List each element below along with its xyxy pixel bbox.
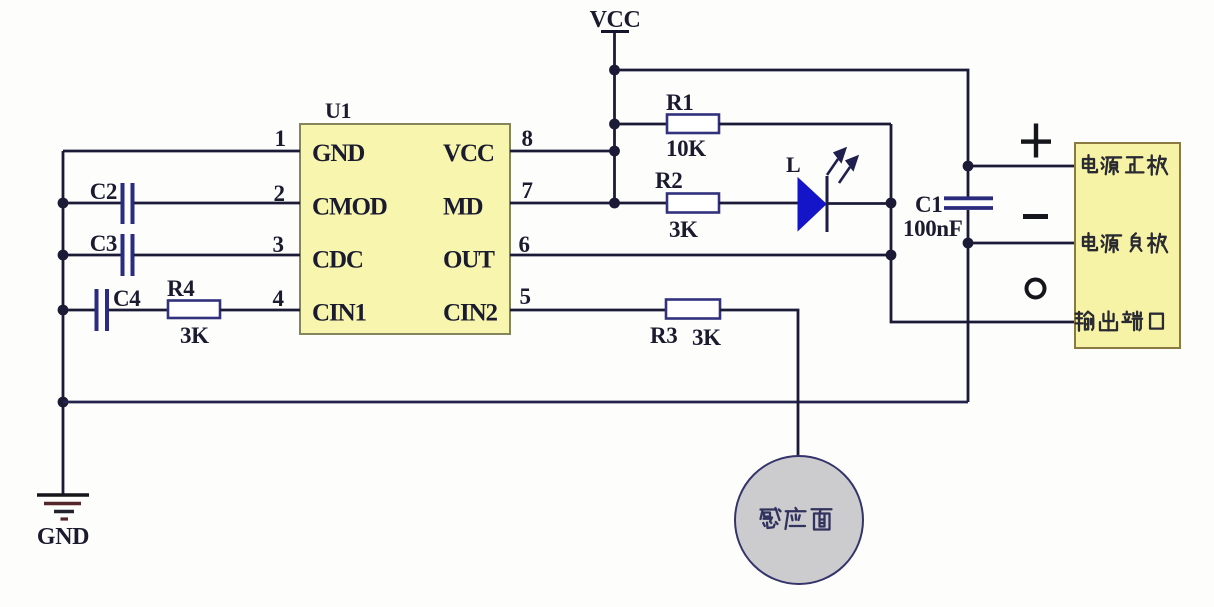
svg-text:8: 8 <box>521 126 532 151</box>
svg-text:5: 5 <box>519 284 530 309</box>
svg-text:3K: 3K <box>692 325 721 350</box>
wire: left bus to C2 <box>63 202 121 205</box>
svg-text:R3: R3 <box>650 323 677 348</box>
node: VCC rail MD row junction <box>609 198 620 209</box>
svg-text:4: 4 <box>272 286 284 311</box>
svg-text:3: 3 <box>272 232 283 257</box>
svg-text:R4: R4 <box>167 276 195 301</box>
wire: pin 5 CIN2 to R3 <box>510 309 666 312</box>
svg-text:OUT: OUT <box>443 247 495 274</box>
wire: C2 to pin 2 <box>134 202 300 205</box>
terminal block <box>1075 143 1180 348</box>
sensing pad (gan ying mian) <box>735 456 863 584</box>
svg-text:CIN1: CIN1 <box>312 300 367 327</box>
svg-text:1: 1 <box>274 126 285 151</box>
svg-text:7: 7 <box>521 178 532 203</box>
node: left bus at ground bus <box>58 397 69 408</box>
svg-text:MD: MD <box>443 194 482 221</box>
node: VCC rail / top rail junction <box>609 65 620 76</box>
svg-text:CMOD: CMOD <box>312 194 387 221</box>
capacitor C3 <box>90 231 133 276</box>
capacitor C2 <box>90 179 133 224</box>
wire: left bus to C4 <box>63 309 95 312</box>
plus symbol <box>1021 124 1051 158</box>
wire: R3 to sensing pad <box>720 310 798 456</box>
svg-text:R2: R2 <box>655 168 682 193</box>
label: power positive terminal (dian yuan zheng ji) <box>1083 155 1167 175</box>
resistor R1 <box>666 90 719 161</box>
node: left bus row 4 <box>58 305 69 316</box>
LED L <box>786 149 857 232</box>
wire: LED cathode to output column <box>828 202 891 205</box>
label: output port (shu chu duan kou) <box>1076 311 1163 330</box>
output O symbol <box>1027 280 1045 298</box>
svg-text:L: L <box>786 152 800 177</box>
minus symbol <box>1023 214 1048 219</box>
power symbol VCC <box>590 7 641 33</box>
svg-text:GND: GND <box>37 524 89 550</box>
svg-text:CDC: CDC <box>312 247 363 274</box>
wire: R1 to output column <box>719 123 891 126</box>
label: power negative terminal (dian yuan fu ji) <box>1083 233 1167 253</box>
node: negative terminal junction <box>963 238 974 249</box>
resistor R2 <box>655 168 719 242</box>
capacitor C4 <box>97 286 142 331</box>
wire: VCC top rail across to right column <box>615 70 969 197</box>
capacitor C1 <box>903 192 993 241</box>
wire: pin 6 OUT row <box>510 254 891 257</box>
wire: negative supply terminal <box>968 242 1075 245</box>
node: VCC rail pin 8 junction <box>609 146 620 157</box>
svg-text:3K: 3K <box>669 217 698 242</box>
svg-text:6: 6 <box>518 232 529 257</box>
ground symbol GND <box>37 495 89 550</box>
svg-text:C4: C4 <box>113 286 141 311</box>
svg-text:VCC: VCC <box>590 7 641 33</box>
IC U1 body <box>300 98 510 334</box>
svg-text:CIN2: CIN2 <box>443 300 498 327</box>
node: left bus row 3 <box>58 250 69 261</box>
svg-text:C3: C3 <box>90 231 117 256</box>
wire: left bus <box>62 151 65 495</box>
svg-text:C2: C2 <box>90 179 117 204</box>
svg-text:3K: 3K <box>180 323 209 348</box>
wire: left bus to C3 <box>63 254 121 257</box>
svg-text:VCC: VCC <box>443 140 494 167</box>
node: positive terminal junction <box>963 161 974 172</box>
wire: pin 7 MD to R2 <box>510 202 667 205</box>
svg-text:10K: 10K <box>666 136 706 161</box>
svg-text:GND: GND <box>312 140 364 167</box>
wire: VCC rail to R1 <box>615 123 668 126</box>
node: left bus row 2 <box>58 198 69 209</box>
resistor R4 <box>167 276 220 348</box>
svg-text:C1: C1 <box>915 192 942 217</box>
node: VCC rail R1 branch junction <box>609 119 620 130</box>
wire: right column from C1 down to ground bus <box>967 210 970 402</box>
svg-text:U1: U1 <box>325 98 351 123</box>
wire: C3 to pin 3 <box>134 254 300 257</box>
resistor R3 <box>650 300 721 351</box>
wire: VCC rail stem <box>613 33 616 203</box>
wire: output column down to output port <box>891 124 1075 322</box>
wire: pin 8 to VCC rail <box>510 150 615 153</box>
svg-text:R1: R1 <box>666 90 693 115</box>
wire: ground bus <box>63 401 968 404</box>
wire: R4 to pin 4 <box>220 309 300 312</box>
svg-text:100nF: 100nF <box>903 216 962 241</box>
node: output column OUT junction <box>886 250 897 261</box>
wire: C4 to R4 <box>109 309 169 312</box>
wire: positive supply terminal <box>968 165 1075 168</box>
node: output column LED junction <box>886 198 897 209</box>
wire: pin 1 to left bus <box>63 150 300 153</box>
wire: R2 to LED anode <box>719 202 798 205</box>
